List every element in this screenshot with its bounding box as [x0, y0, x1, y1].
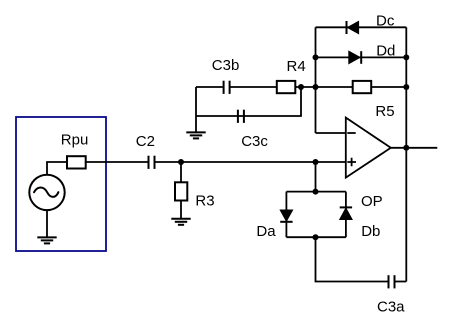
ground below source	[37, 237, 56, 243]
wire R4 to left rail	[295, 86, 315, 88]
diode Dd	[349, 51, 361, 64]
junction at C2/R3 node	[178, 159, 184, 165]
wire C3c lower run	[196, 87, 301, 116]
wire C3a to right rail	[395, 281, 406, 283]
junction bridge bottom	[313, 234, 319, 240]
wire bridge top rail	[286, 191, 346, 193]
wire plus node down to bridge top	[315, 162, 317, 192]
wire Dc row	[316, 26, 407, 28]
svg-text:R4: R4	[287, 58, 306, 75]
wire C3b/C3c left vertical to ground	[195, 87, 197, 132]
wire Rpu to C2	[86, 161, 148, 163]
junction at left rail / R4 row	[313, 84, 319, 90]
wire R5 row left	[316, 86, 353, 88]
right feedback rail	[405, 27, 407, 281]
resistor R5	[353, 81, 372, 93]
wire Dd row	[316, 56, 407, 58]
resistor R4	[277, 81, 296, 93]
diode Db	[340, 207, 352, 219]
wire op-amp output	[391, 147, 438, 149]
junction plus input node	[313, 159, 319, 165]
svg-text:C3b: C3b	[212, 57, 240, 74]
capacitor C3a	[389, 275, 395, 288]
junction output node	[403, 145, 409, 151]
wire R3 to ground	[180, 201, 182, 219]
wire source bottom to ground	[46, 210, 48, 237]
svg-text:OP: OP	[361, 193, 383, 210]
wire C2 to op-amp plus input	[155, 161, 345, 163]
wire bridge right branch	[345, 192, 347, 238]
wire bridge bottom rail	[286, 236, 346, 238]
op-amp U1	[346, 118, 391, 178]
capacitor C2	[149, 156, 155, 169]
capacitor C3c	[238, 110, 244, 123]
svg-text:C3a: C3a	[377, 299, 405, 316]
svg-text:C3c: C3c	[241, 133, 268, 150]
svg-text:R5: R5	[375, 103, 394, 120]
svg-text:C2: C2	[136, 133, 155, 150]
source box (blue enclosure)	[16, 117, 106, 251]
wire left rail to op-amp minus input	[316, 132, 346, 134]
junction R5 row right rail	[403, 84, 409, 90]
resistor R3	[175, 182, 187, 200]
AC source V1	[29, 175, 64, 210]
diode Dc	[347, 21, 359, 34]
junction Dd row right	[403, 54, 409, 60]
junction bridge top	[313, 189, 319, 195]
junction Dd row left	[313, 54, 319, 60]
wire C3b to R4	[231, 86, 278, 88]
left feedback rail	[315, 27, 317, 133]
ground below R3	[171, 219, 190, 225]
diode Da	[280, 210, 292, 222]
svg-text:Dd: Dd	[376, 43, 395, 60]
svg-text:Da: Da	[256, 223, 276, 240]
svg-text:Dc: Dc	[376, 13, 395, 30]
wire source top to Rpu	[47, 162, 67, 175]
ground below C3b/C3c	[186, 132, 205, 138]
wire bridge bottom to C3a	[316, 237, 388, 281]
svg-text:Rpu: Rpu	[61, 131, 89, 148]
junction at R4/C3c node	[298, 84, 304, 90]
resistor Rpu	[67, 156, 86, 168]
wire ground vertical to C3b	[196, 86, 223, 88]
wire node to R3	[180, 162, 182, 182]
svg-text:R3: R3	[195, 193, 214, 210]
capacitor C3b	[224, 81, 230, 94]
svg-text:Db: Db	[361, 223, 380, 240]
wire R5 row right	[371, 86, 406, 88]
wire bridge left branch	[285, 192, 287, 238]
